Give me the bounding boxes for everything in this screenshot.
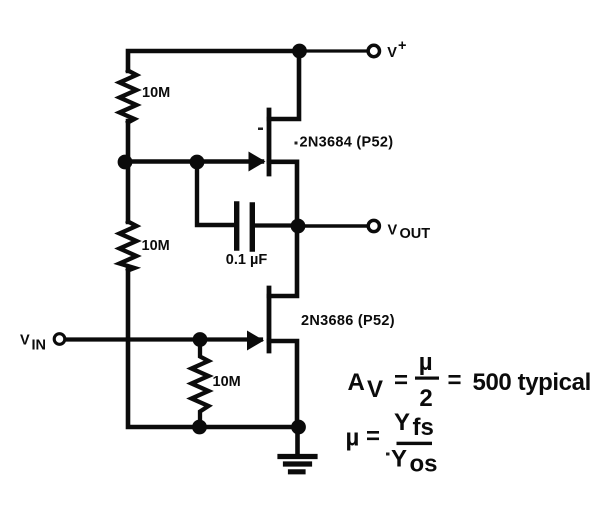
terminal Vin [54,334,65,345]
ground symbol bar 1 [280,454,315,459]
svg-text:=: = [394,367,408,394]
svg-text:µ: µ [419,349,433,376]
junction node R3 bottom [192,420,207,435]
svg-text:os: os [410,451,438,478]
svg-text:IN: IN [32,338,47,354]
svg-text:A: A [348,369,365,396]
resistor R3 10M [192,339,209,421]
svg-text:10M: 10M [213,374,241,390]
svg-text:=: = [366,423,380,450]
junction node Vout [291,219,306,234]
transistor Q2 channel bar [267,288,272,351]
svg-text:2N3686 (P52): 2N3686 (P52) [301,313,395,329]
junction node Vin / R3 top [193,332,208,347]
resistor R1 10M [120,71,137,123]
wire from top junction to V+ terminal [300,49,367,52]
wire R2 bottom down left rail to bottom rail [128,269,299,427]
scan speck before Yos [386,453,390,456]
transistor Q2 gate arrow [247,331,264,351]
wire gate row [125,159,262,163]
equation mu = Yfs/Yos [346,409,438,478]
svg-text:10M: 10M [142,238,170,254]
svg-text:µ: µ [346,425,360,452]
scan speck above Q1 gate arrow [258,128,263,131]
terminal Vout [368,220,379,231]
ground symbol bar 3 [291,469,304,474]
junction node at top rail [292,44,307,59]
transistor Q1 source lead to Vout node [269,162,297,226]
svg-text:+: + [398,38,406,54]
wire gate node down to R2 [126,162,131,222]
ground symbol bar 2 [286,461,310,466]
wire Vout node to terminal [298,224,368,227]
svg-text:V: V [388,223,398,239]
svg-text:2N3684 (P52): 2N3684 (P52) [300,135,394,151]
junction node gate row left [118,155,133,170]
wire Vin row [66,337,261,341]
equation Av = mu/2 = 500 typical [348,349,591,412]
resistor R2 10M [120,222,137,271]
transistor Q2 source lead down to bottom rail [269,341,297,427]
scan speck near Q1 label [295,142,298,145]
wire top rail V+ [128,51,300,71]
svg-text:500 typical: 500 typical [473,369,591,396]
svg-text:OUT: OUT [400,226,431,242]
terminal V+ [368,45,379,56]
transistor Q1 gate arrow [249,152,266,172]
svg-text:2: 2 [419,385,432,412]
svg-text:V: V [387,45,397,61]
junction node bottom rail right [291,420,306,435]
svg-text:=: = [448,367,462,394]
capacitor branch wire from gate node [197,162,234,225]
transistor Q1 channel bar [267,110,272,174]
svg-text:Y: Y [394,409,410,436]
capacitor C1 left plate [234,204,239,248]
svg-text:Y: Y [391,446,407,473]
capacitor C1 right plate [250,205,255,249]
wire R1 bottom to gate node [126,121,131,162]
wire ground lead [295,427,300,455]
svg-text:10M: 10M [142,85,170,101]
svg-text:V: V [20,333,30,349]
transistor Q2 drain lead from Vout node [269,226,297,296]
svg-text:fs: fs [413,414,434,441]
wire capacitor to Vout node [255,223,298,227]
svg-text:0.1 µF: 0.1 µF [226,252,268,268]
transistor Q1 drain lead [269,53,299,119]
junction node gate row capacitor tap [190,155,205,170]
svg-text:V: V [367,376,383,403]
